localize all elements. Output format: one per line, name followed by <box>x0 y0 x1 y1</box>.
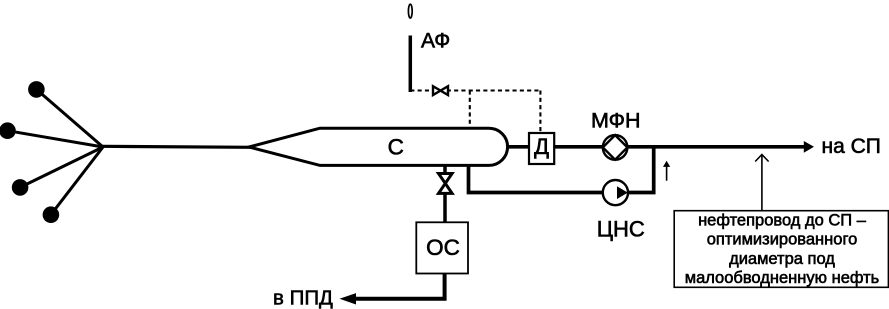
svg-text:МФН: МФН <box>591 109 641 133</box>
svg-text:на СП: на СП <box>822 135 881 158</box>
svg-text:ОС: ОС <box>426 235 460 260</box>
svg-text:диаметра под: диаметра под <box>729 250 835 268</box>
svg-text:Д: Д <box>534 134 549 159</box>
svg-text:нефтепровод до СП –: нефтепровод до СП – <box>698 212 867 230</box>
svg-text:АФ: АФ <box>421 30 450 53</box>
svg-text:оптимизированного: оптимизированного <box>707 231 858 249</box>
svg-text:в ППД: в ППД <box>273 286 333 309</box>
svg-text:С: С <box>388 134 404 159</box>
svg-text:малообводненную нефть: малообводненную нефть <box>685 269 880 287</box>
svg-text:ЦНС: ЦНС <box>597 216 645 241</box>
